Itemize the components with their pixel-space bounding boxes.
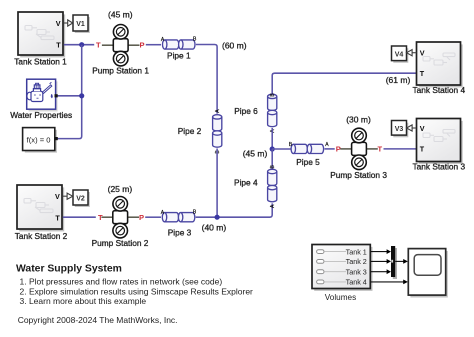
svg-text:V: V [420,124,425,133]
wire pump3 to tank3 [384,148,417,150]
wire pipe3 to pipe4 along bottom [196,203,273,232]
svg-text:Tank Station 3: Tank Station 3 [413,162,466,172]
arrow tank3 V to V3 [407,125,417,131]
svg-text:Tank Station 4: Tank Station 4 [413,85,466,95]
signal wire volumes Tank1 to mux [370,249,391,254]
svg-text:Copyright 2008-2024 The MathWo: Copyright 2008-2024 The MathWorks, Inc. [18,315,178,325]
svg-text:Tank 2: Tank 2 [346,257,367,266]
scope block V4 [392,46,409,63]
tank station 1 (subsystem block) [14,12,67,66]
pipe 3 [161,209,197,237]
scope block V1 [73,15,90,33]
wire pipe5 to pump3 [325,148,335,150]
svg-text:(61 m): (61 m) [386,75,411,85]
svg-text:Tank 3: Tank 3 [346,267,367,276]
svg-text:T: T [96,41,101,50]
solver block f(x)=0 [23,128,58,153]
svg-text:(45 m): (45 m) [243,149,268,159]
pipe 4 (vertical) [234,149,277,208]
tank station 2 (subsystem block) [15,185,68,241]
svg-text:V: V [55,192,60,201]
svg-text:Pipe 6: Pipe 6 [234,106,258,116]
arrow tank4 V to V4 [407,50,417,56]
svg-text:Tank 4: Tank 4 [346,278,367,287]
svg-text:V3: V3 [395,126,404,133]
wire branch to water properties and solver [57,45,81,139]
wire pipe6 to tank4, node (61 m) [272,73,416,95]
scope block V2 [73,190,90,207]
junction node (40 m) [215,215,220,220]
junction node water properties [79,93,84,98]
wire pump1 to pipe1 [146,44,161,46]
svg-text:V2: V2 [76,195,85,202]
svg-text:V: V [56,19,61,28]
svg-text:Tank Station 2: Tank Station 2 [15,231,68,241]
pump station 1 [92,10,149,76]
svg-text:(25 m): (25 m) [108,184,133,194]
svg-text:Pump Station 3: Pump Station 3 [330,170,387,180]
svg-text:V1: V1 [76,21,85,28]
mux block [391,246,397,279]
svg-text:P: P [336,145,341,154]
wire pipe2 to node (40 m) [216,149,218,218]
svg-text:T: T [420,69,425,78]
svg-text:T: T [55,214,60,223]
signal wire volumes Tank3 to mux [370,269,391,274]
arrow tank1 V to V1 [64,20,73,26]
junction node on T wire [79,42,84,47]
wire pump2 to pipe3 [145,216,161,218]
wire pipe1 to pipe2, node (60 m) [196,40,247,113]
scope block [408,249,448,298]
pipe 1 [161,37,197,61]
scope block V3 [392,121,409,138]
svg-text:Pipe 1: Pipe 1 [167,50,191,60]
svg-text:Water Supply System: Water Supply System [16,263,122,274]
annotation list [20,276,254,306]
svg-text:Pipe 2: Pipe 2 [178,126,202,136]
svg-text:T: T [56,41,61,50]
svg-text:P: P [139,41,144,50]
pump station 3 [330,115,387,180]
svg-text:3. Learn more about this examp: 3. Learn more about this example [20,296,147,306]
svg-text:T: T [420,145,425,154]
svg-text:(30 m): (30 m) [346,115,371,125]
pipe 5 [289,142,330,167]
svg-text:1. Plot pressures and flow rat: 1. Plot pressures and flow rates in netw… [20,276,223,286]
svg-text:(60 m): (60 m) [222,40,247,50]
svg-text:P: P [139,213,144,222]
svg-text:Pipe 5: Pipe 5 [296,157,320,167]
svg-text:Pipe 4: Pipe 4 [234,178,258,188]
wire pipe6 to node (45 m) [271,128,273,149]
pipe 2 (vertical) [178,109,222,154]
svg-text:f(x) = 0: f(x) = 0 [27,135,51,144]
svg-text:Pump Station 1: Pump Station 1 [92,66,149,76]
svg-text:(40 m): (40 m) [202,222,227,232]
svg-text:Pipe 3: Pipe 3 [168,227,192,237]
tank station 3 (subsystem block) [413,119,466,172]
water properties block [10,79,72,120]
signal wire volumes Tank2 to mux [370,259,391,264]
svg-text:Tank Station 1: Tank Station 1 [14,56,67,66]
svg-text:Volumes: Volumes [325,293,356,302]
svg-text:(45 m): (45 m) [108,10,133,20]
volumes subsystem block [312,245,373,302]
wire node (45 m) to pipe5 [272,148,290,150]
svg-text:Water Properties: Water Properties [10,110,72,120]
svg-text:Pump Station 2: Pump Station 2 [92,238,149,248]
junction node (45 m) [243,146,275,158]
pump station 2 [92,184,149,248]
svg-text:V4: V4 [395,51,404,58]
svg-text:T: T [377,145,382,154]
tank station 4 (subsystem block) [413,42,466,95]
wire tank2 T to pump2 [63,216,96,218]
wire tank1 T to pump1 [64,44,94,46]
pipe 6 (vertical) [234,93,277,133]
svg-text:2. Explore simulation results: 2. Explore simulation results using Sims… [20,286,254,296]
signal wire volumes Tank4 to scope [370,280,408,285]
svg-text:V: V [420,48,425,57]
svg-text:Tank 1: Tank 1 [346,247,367,256]
signal wire mux to scope [395,259,408,264]
arrow tank2 V to V2 [63,193,73,199]
